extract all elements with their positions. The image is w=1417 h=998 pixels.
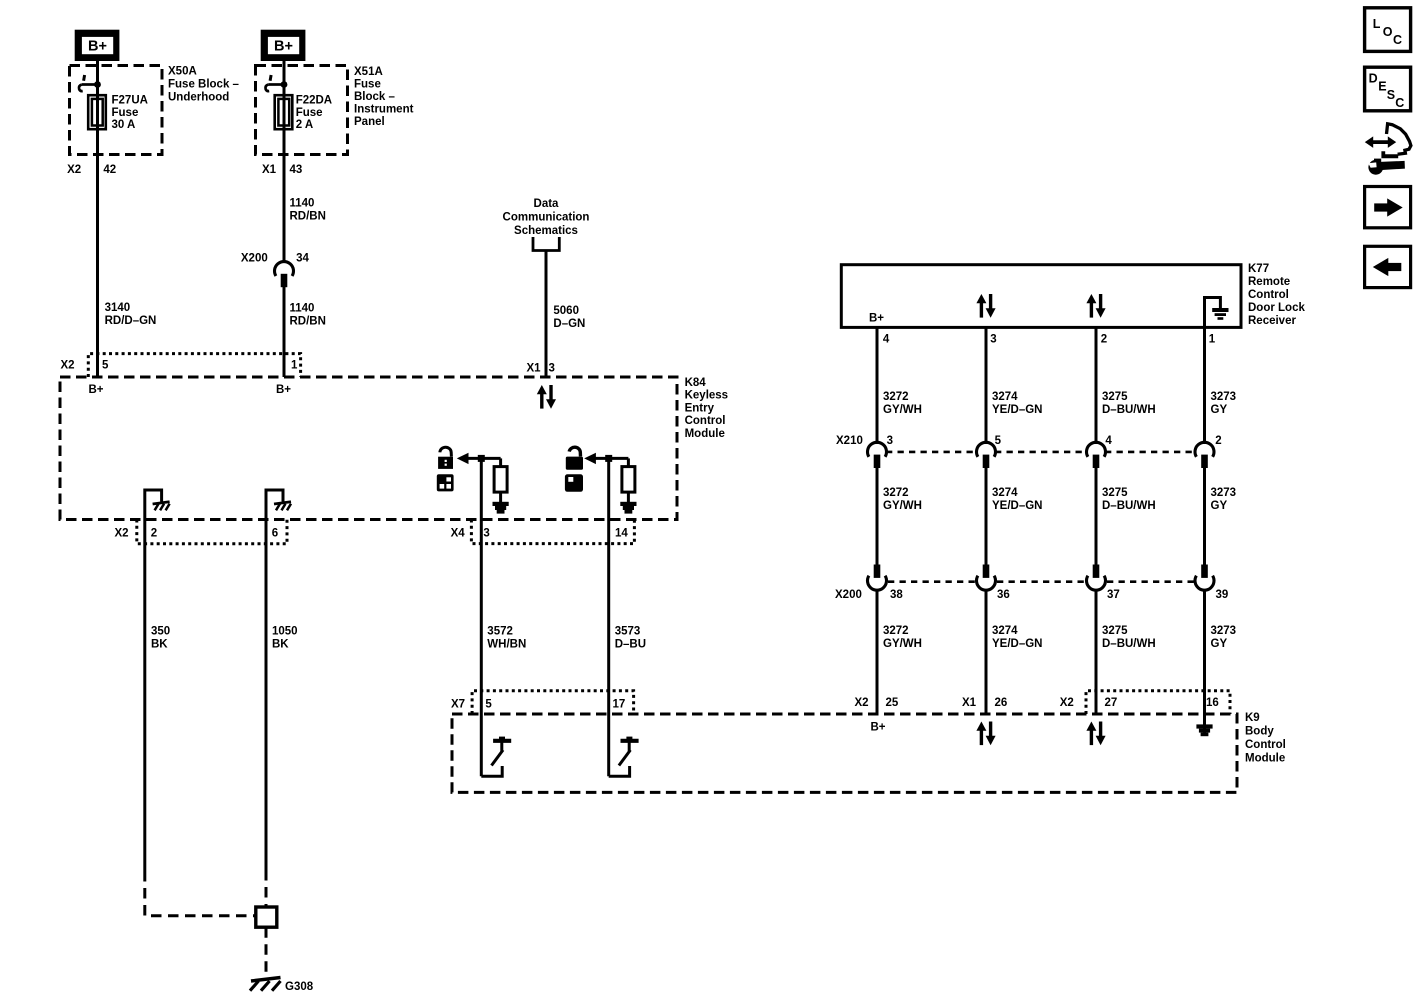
connector label X1 43 bbox=[262, 164, 302, 176]
svg-text:X4: X4 bbox=[451, 527, 466, 539]
internal ground in K77 (pin 1) bbox=[1205, 298, 1229, 328]
wire label 1140 RD/BN (above X200) bbox=[290, 197, 326, 222]
svg-text:D–BU/WH: D–BU/WH bbox=[1102, 638, 1156, 650]
junction node (pin 14 branch) bbox=[605, 455, 612, 462]
svg-text:Communication: Communication bbox=[503, 212, 590, 224]
wire label 3572 WH/BN bbox=[487, 626, 526, 651]
svg-text:B+: B+ bbox=[274, 39, 293, 55]
connector labels X2 2 6 bbox=[115, 527, 279, 539]
label X200 34 bbox=[241, 252, 310, 264]
connector strip X4 pins 3 and 14 below K84 bbox=[471, 520, 634, 544]
svg-text:Receiver: Receiver bbox=[1248, 315, 1296, 327]
svg-text:B+: B+ bbox=[88, 384, 103, 396]
svg-text:WH/BN: WH/BN bbox=[487, 639, 526, 651]
svg-text:B+: B+ bbox=[276, 384, 291, 396]
svg-text:1140: 1140 bbox=[290, 197, 315, 209]
wire serial data to K84 (circuit 5060) bbox=[545, 251, 548, 378]
svg-text:17: 17 bbox=[613, 698, 626, 710]
svg-text:3274: 3274 bbox=[992, 391, 1018, 403]
ground wire pin X2-6 inside K84 bbox=[266, 490, 283, 520]
internal ground arrow in K9 (pin 16) bbox=[1196, 724, 1212, 736]
wire label 3573 D-BU bbox=[615, 626, 646, 651]
connector labels X7 5 17 bbox=[451, 698, 625, 710]
connector row X210 bbox=[868, 442, 1215, 468]
ground G308 bbox=[250, 978, 281, 991]
wire K84 pin2 ground (circuit 350) bbox=[145, 520, 256, 916]
serial data up/down arrows in K84 bbox=[537, 385, 556, 409]
fuse block instrument panel dashed box X51A bbox=[256, 66, 348, 155]
inline connector X200 pin 34 bbox=[275, 262, 294, 377]
svg-text:X2: X2 bbox=[855, 697, 869, 709]
K84 Keyless Entry Control Module dashed box bbox=[60, 377, 677, 520]
svg-text:GY: GY bbox=[1211, 638, 1228, 650]
all doors icon (window 4 panes) bbox=[437, 474, 454, 491]
svg-text:3272: 3272 bbox=[883, 487, 909, 499]
label K84 Keyless Entry Control Module bbox=[685, 377, 728, 440]
unlock driver door icon (open padlock filled) bbox=[566, 447, 583, 470]
svg-text:X2: X2 bbox=[1060, 697, 1074, 709]
up/down arrows in K77 (pin 3) bbox=[976, 294, 995, 318]
svg-text:X1: X1 bbox=[527, 362, 542, 374]
svg-text:F27UA: F27UA bbox=[112, 95, 148, 107]
svg-text:3573: 3573 bbox=[615, 626, 641, 638]
label K77 Remote Control Door Lock Receiver bbox=[1248, 263, 1305, 327]
svg-text:5060: 5060 bbox=[553, 305, 579, 317]
svg-text:2 A: 2 A bbox=[296, 119, 313, 131]
K9 connector labels X2 25 X1 26 X2 27 16 bbox=[855, 697, 1219, 709]
Data Communication Schematics reference bbox=[503, 198, 590, 251]
svg-text:3140: 3140 bbox=[105, 302, 131, 314]
chassis ground symbol (pin 6) bbox=[274, 502, 291, 511]
label K9 Body Control Module bbox=[1245, 712, 1286, 765]
connector labels X4 3 14 bbox=[451, 527, 629, 539]
driver door icon (window one pane) bbox=[565, 474, 583, 492]
svg-text:BK: BK bbox=[272, 639, 289, 651]
svg-text:Control: Control bbox=[1245, 739, 1286, 751]
svg-text:K77: K77 bbox=[1248, 263, 1269, 275]
splice ring terminal bbox=[256, 907, 277, 927]
svg-text:X51A: X51A bbox=[354, 66, 383, 78]
wire K84 pin3 to door lock switch bbox=[480, 458, 483, 776]
svg-text:Schematics: Schematics bbox=[514, 225, 578, 237]
svg-text:C: C bbox=[1395, 96, 1404, 110]
svg-text:25: 25 bbox=[886, 697, 899, 709]
svg-text:3275: 3275 bbox=[1102, 391, 1128, 403]
svg-text:3272: 3272 bbox=[883, 625, 909, 637]
svg-text:O: O bbox=[1383, 25, 1393, 39]
svg-text:3273: 3273 bbox=[1211, 487, 1237, 499]
svg-text:F22DA: F22DA bbox=[296, 95, 332, 107]
svg-text:2: 2 bbox=[151, 527, 157, 539]
svg-text:6: 6 bbox=[272, 527, 278, 539]
svg-text:K9: K9 bbox=[1245, 712, 1260, 724]
label X200 and pins 38 36 37 39 bbox=[835, 589, 1228, 601]
svg-text:BK: BK bbox=[151, 639, 168, 651]
fuse F27UA 30 A bbox=[88, 95, 106, 129]
svg-text:Panel: Panel bbox=[354, 116, 385, 128]
label F27UA Fuse 30 A bbox=[112, 95, 148, 132]
icon box arrow right bbox=[1365, 187, 1411, 228]
svg-text:3273: 3273 bbox=[1211, 625, 1237, 637]
svg-text:GY/WH: GY/WH bbox=[883, 404, 922, 416]
svg-text:3273: 3273 bbox=[1211, 391, 1237, 403]
svg-text:43: 43 bbox=[290, 164, 303, 176]
svg-text:3: 3 bbox=[483, 527, 489, 539]
svg-text:Fuse: Fuse bbox=[296, 107, 323, 119]
wire K77 pin3 to X210 (circuit 3274) bbox=[985, 327, 988, 444]
wire label 350 BK bbox=[151, 626, 170, 651]
svg-text:3275: 3275 bbox=[1102, 487, 1128, 499]
B+ power symbol (left) bbox=[75, 30, 120, 61]
unlock output arrow (right) bbox=[584, 453, 628, 464]
door lock switch (unlock, pin 5) bbox=[481, 737, 511, 777]
up/down arrows in K9 (pin 26) bbox=[976, 722, 995, 746]
svg-text:GY/WH: GY/WH bbox=[883, 500, 922, 512]
connector label X1 3 (serial data) bbox=[527, 362, 555, 374]
svg-text:Instrument: Instrument bbox=[354, 104, 414, 116]
icon wrench and arrows bbox=[1365, 124, 1411, 175]
svg-text:GY/WH: GY/WH bbox=[883, 638, 922, 650]
svg-text:37: 37 bbox=[1107, 589, 1120, 601]
svg-text:S: S bbox=[1387, 88, 1395, 102]
svg-text:Block –: Block – bbox=[354, 91, 396, 103]
svg-text:YE/D–GN: YE/D–GN bbox=[992, 500, 1043, 512]
wire label 1050 BK bbox=[272, 626, 298, 651]
svg-text:5: 5 bbox=[102, 359, 109, 371]
svg-text:3: 3 bbox=[990, 333, 996, 345]
svg-text:Module: Module bbox=[685, 428, 725, 440]
svg-text:X2: X2 bbox=[115, 527, 129, 539]
svg-text:3275: 3275 bbox=[1102, 625, 1128, 637]
unlock output arrow (left) bbox=[457, 453, 501, 464]
label X50A Fuse Block - Underhood bbox=[168, 66, 240, 104]
svg-text:34: 34 bbox=[296, 252, 309, 264]
wire K84 pin6 ground (circuit 1050) bbox=[265, 520, 268, 908]
wire label 5060 D-GN bbox=[553, 305, 585, 330]
fuse F22DA 2 A bbox=[275, 95, 293, 129]
door lock switch (unlock driver, pin 17) bbox=[609, 737, 639, 777]
svg-text:D: D bbox=[1369, 72, 1378, 86]
svg-text:Fuse: Fuse bbox=[354, 79, 381, 91]
svg-text:X1: X1 bbox=[962, 697, 977, 709]
wire labels row 2 bbox=[883, 487, 1236, 512]
svg-text:D–BU: D–BU bbox=[615, 639, 646, 651]
label X51A Fuse Block - Instrument Panel bbox=[354, 66, 414, 128]
svg-text:X50A: X50A bbox=[168, 66, 197, 78]
svg-text:X2: X2 bbox=[67, 164, 81, 176]
svg-text:GY: GY bbox=[1211, 404, 1228, 416]
svg-text:D–BU/WH: D–BU/WH bbox=[1102, 500, 1156, 512]
internal ground arrow (resistor 2) bbox=[620, 502, 636, 514]
unlock all doors icon (open padlock outline) bbox=[438, 447, 453, 469]
svg-text:3: 3 bbox=[887, 435, 893, 447]
svg-text:1: 1 bbox=[1209, 333, 1216, 345]
junction node (pin 3 branch) bbox=[478, 455, 485, 462]
svg-text:3272: 3272 bbox=[883, 391, 909, 403]
connector strip X2 pins 5 and 1 on K84 bbox=[88, 354, 300, 377]
svg-text:X2: X2 bbox=[61, 359, 75, 371]
svg-text:2: 2 bbox=[1101, 333, 1107, 345]
svg-text:B+: B+ bbox=[870, 722, 885, 734]
svg-text:2: 2 bbox=[1215, 435, 1221, 447]
icon box DESC bbox=[1365, 67, 1411, 111]
wire K77 pin2 to X210 (circuit 3275) bbox=[1095, 327, 1098, 444]
icon box LOC bbox=[1365, 8, 1411, 52]
svg-text:Module: Module bbox=[1245, 753, 1285, 765]
svg-text:350: 350 bbox=[151, 626, 170, 638]
svg-text:Entry: Entry bbox=[685, 402, 715, 414]
up/down arrows in K9 (pin 27) bbox=[1086, 722, 1105, 746]
wire from B+ through fuse F27UA down to K84 (circuit 3140) bbox=[96, 61, 99, 377]
fuse block underhood terminal clip bbox=[79, 75, 101, 91]
svg-text:E: E bbox=[1378, 80, 1386, 94]
svg-text:X200: X200 bbox=[835, 589, 862, 601]
svg-text:Data: Data bbox=[534, 198, 560, 210]
wires X200 to K9 bbox=[877, 589, 1205, 736]
wire label 1140 RD/BN (below X200) bbox=[290, 303, 326, 328]
connector labels X2 5 1 bbox=[61, 359, 299, 371]
svg-text:42: 42 bbox=[103, 164, 116, 176]
svg-text:14: 14 bbox=[615, 527, 628, 539]
svg-text:Fuse Block –: Fuse Block – bbox=[168, 79, 240, 91]
svg-text:RD/D–GN: RD/D–GN bbox=[105, 315, 157, 327]
B+ power symbol (second) bbox=[261, 30, 306, 61]
K77 Remote Control Door Lock Receiver box bbox=[841, 265, 1241, 328]
internal ground arrow (resistor 1) bbox=[493, 502, 509, 514]
svg-text:L: L bbox=[1373, 17, 1381, 31]
svg-text:5: 5 bbox=[485, 698, 492, 710]
wire label 3140 RD/D-GN bbox=[105, 302, 157, 327]
svg-text:3: 3 bbox=[549, 362, 555, 374]
svg-text:D–GN: D–GN bbox=[553, 318, 585, 330]
svg-text:1050: 1050 bbox=[272, 626, 298, 638]
resistor (unlock driver sense) bbox=[622, 458, 635, 502]
svg-text:RD/BN: RD/BN bbox=[290, 211, 326, 223]
svg-text:4: 4 bbox=[1105, 435, 1112, 447]
up/down arrows in K77 (pin 2) bbox=[1086, 294, 1105, 318]
K77 pin labels 4 3 2 1 bbox=[883, 333, 1216, 345]
svg-text:1: 1 bbox=[291, 359, 298, 371]
fuse block IP terminal clip bbox=[265, 75, 287, 91]
svg-text:K84: K84 bbox=[685, 377, 707, 389]
svg-text:B+: B+ bbox=[869, 313, 884, 325]
svg-text:X210: X210 bbox=[836, 435, 863, 447]
svg-text:X7: X7 bbox=[451, 698, 465, 710]
svg-text:Keyless: Keyless bbox=[685, 390, 728, 402]
connector row X200 bbox=[868, 565, 1215, 591]
wire K84 pin14 to door lock switch bbox=[607, 458, 610, 776]
svg-text:27: 27 bbox=[1105, 697, 1118, 709]
svg-text:3274: 3274 bbox=[992, 487, 1018, 499]
svg-text:Underhood: Underhood bbox=[168, 92, 229, 104]
svg-text:30 A: 30 A bbox=[112, 119, 136, 131]
svg-text:39: 39 bbox=[1216, 589, 1229, 601]
wires X210 to X200 bbox=[877, 464, 1205, 569]
svg-text:X200: X200 bbox=[241, 252, 268, 264]
wire labels row 3 bbox=[883, 625, 1236, 650]
connector strip X2 pins 27 16 on K9 bbox=[1086, 691, 1230, 714]
fuse block underhood dashed box X50A bbox=[70, 66, 163, 155]
svg-text:Fuse: Fuse bbox=[112, 107, 139, 119]
connector strip X2 pins 2 and 6 below K84 bbox=[137, 520, 287, 544]
connector strip X7 pins 5 and 17 on K9 bbox=[472, 691, 633, 714]
svg-text:5: 5 bbox=[995, 435, 1002, 447]
svg-text:4: 4 bbox=[883, 333, 890, 345]
svg-text:X1: X1 bbox=[262, 164, 277, 176]
svg-text:C: C bbox=[1393, 33, 1402, 47]
svg-text:RD/BN: RD/BN bbox=[290, 316, 326, 328]
wire splice to G308 bbox=[265, 927, 268, 975]
svg-text:Remote: Remote bbox=[1248, 276, 1290, 288]
svg-text:3274: 3274 bbox=[992, 625, 1018, 637]
svg-text:G308: G308 bbox=[285, 981, 314, 993]
label X210 and pins 3 5 4 2 bbox=[836, 435, 1222, 447]
wire K77 pin4 to X210 (circuit 3272) bbox=[876, 327, 879, 444]
svg-text:1140: 1140 bbox=[290, 303, 315, 315]
ground wire pin X2-2 inside K84 bbox=[145, 490, 162, 520]
label F22DA Fuse 2 A bbox=[296, 95, 332, 132]
svg-text:GY: GY bbox=[1211, 500, 1228, 512]
chassis ground symbol (pin 2) bbox=[153, 502, 170, 511]
resistor (unlock sense) bbox=[494, 458, 507, 502]
svg-text:26: 26 bbox=[995, 697, 1008, 709]
wire K77 pin1 to X210 (circuit 3273) bbox=[1203, 327, 1206, 444]
wire from B+ through fuse F22DA to connector X200 (circuit 1140) bbox=[283, 61, 286, 263]
svg-text:36: 36 bbox=[997, 589, 1010, 601]
svg-text:Control: Control bbox=[685, 415, 726, 427]
svg-text:YE/D–GN: YE/D–GN bbox=[992, 404, 1043, 416]
svg-text:38: 38 bbox=[890, 589, 903, 601]
svg-text:16: 16 bbox=[1206, 697, 1219, 709]
svg-text:Control: Control bbox=[1248, 289, 1289, 301]
svg-text:3572: 3572 bbox=[487, 626, 513, 638]
connector label X2 42 bbox=[67, 164, 116, 176]
svg-text:D–BU/WH: D–BU/WH bbox=[1102, 404, 1156, 416]
svg-text:Door Lock: Door Lock bbox=[1248, 302, 1305, 314]
K9 Body Control Module dashed box bbox=[452, 714, 1237, 792]
svg-text:Body: Body bbox=[1245, 726, 1274, 738]
svg-text:YE/D–GN: YE/D–GN bbox=[992, 638, 1043, 650]
wire labels row 1 bbox=[883, 391, 1236, 416]
icon box arrow left bbox=[1365, 246, 1411, 287]
svg-text:B+: B+ bbox=[88, 39, 107, 55]
